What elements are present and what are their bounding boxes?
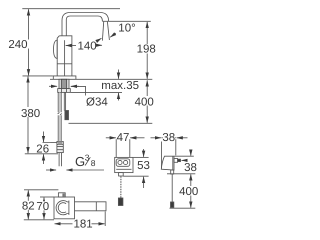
svg-text:400: 400 xyxy=(135,96,154,108)
svg-text:47: 47 xyxy=(117,132,130,144)
svg-text:26: 26 xyxy=(36,144,49,156)
svg-text:38: 38 xyxy=(162,132,175,144)
svg-text:G: G xyxy=(75,154,85,169)
svg-text:70: 70 xyxy=(36,201,49,213)
svg-text:240: 240 xyxy=(8,39,27,51)
svg-text:max.35: max.35 xyxy=(101,80,139,92)
svg-text:181: 181 xyxy=(74,218,93,230)
svg-text:380: 380 xyxy=(21,108,40,120)
svg-text:140: 140 xyxy=(78,40,97,52)
svg-text:8: 8 xyxy=(91,158,96,168)
svg-text:10°: 10° xyxy=(118,23,135,35)
svg-text:Ø34: Ø34 xyxy=(86,97,108,109)
svg-text:38: 38 xyxy=(184,162,197,174)
svg-text:53: 53 xyxy=(137,160,150,172)
svg-text:400: 400 xyxy=(179,186,198,198)
svg-text:198: 198 xyxy=(137,44,156,56)
svg-text:82: 82 xyxy=(22,200,35,212)
